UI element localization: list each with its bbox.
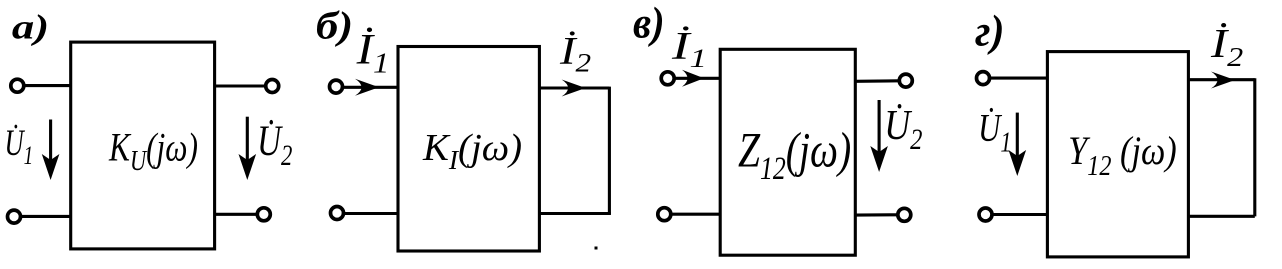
svg-text:а): а) — [12, 7, 49, 46]
svg-text:г): г) — [975, 8, 1004, 56]
svg-text:KI(jω): KI(jω) — [422, 127, 522, 175]
svg-text:Z12(jω): Z12(jω) — [738, 122, 851, 186]
svg-text:б): б) — [316, 5, 353, 48]
svg-text:KU(jω): KU(jω) — [108, 125, 198, 177]
svg-text:в): в) — [633, 0, 665, 48]
svg-text:Y12 (jω): Y12 (jω) — [1068, 130, 1177, 182]
